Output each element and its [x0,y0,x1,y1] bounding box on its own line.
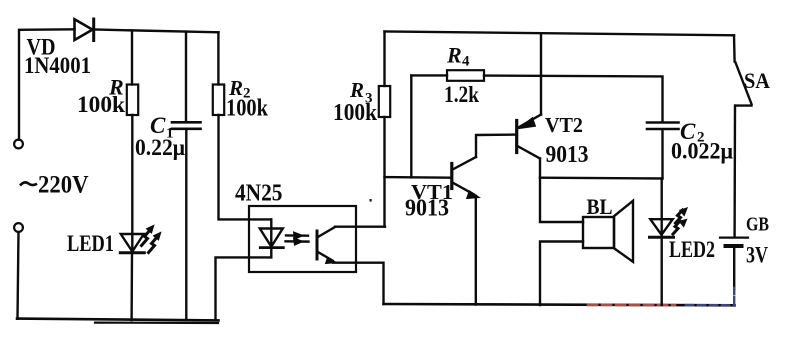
wire VT2 emitter down to node [539,159,541,178]
resistor R3 [379,86,390,117]
terminal lower [14,223,23,232]
wire opto emitter to ground corner [333,263,384,304]
LED1 [120,234,144,253]
wire bottom rail navy dashed watermark segment [686,304,735,307]
wire battery to bottom rail navy dashes [733,248,735,290]
wire bottom rail red dashed watermark segment [588,304,675,307]
terminal upper [14,140,23,149]
opto cathode pin wire to left bottom rail [216,257,272,320]
wire R3 top [383,32,385,86]
wire R3 bottom down to opto collector node [383,117,385,227]
svg-text:LED2: LED2 [669,237,715,262]
speaker BL [583,201,633,262]
svg-text:4N25: 4N25 [235,180,283,206]
diode VD [75,19,94,41]
svg-text:BL: BL [587,194,613,219]
wire lower terminal down to left bottom rail [18,232,19,319]
wire BL bottom pin to ground [540,242,583,306]
wire top right rail [385,31,735,35]
capacitor C2 [647,123,679,130]
battery GB [720,238,748,246]
svg-text:1.2k: 1.2k [444,82,479,107]
svg-text:1N4001: 1N4001 [24,53,91,78]
ink speck [370,199,372,202]
wire top-left from terminal rail to diode anode [19,29,75,139]
svg-text:3V: 3V [746,243,768,268]
svg-text:100k: 100k [77,92,125,117]
svg-text:4: 4 [462,54,470,70]
transistor VT2 [517,115,541,159]
svg-text:9013: 9013 [546,141,589,168]
svg-text:LED1: LED1 [67,231,114,256]
wire R4 left vertical to base node [410,75,412,177]
opto internal LED [260,219,284,257]
wire VT2 collector up to top rail [540,33,542,114]
wire emitter node to C2 bottom [540,176,663,179]
LED1 light arrows [142,225,161,252]
wire C1 branch top [185,32,187,122]
wire SA bottom to battery [733,106,736,237]
wire R branch top [131,31,133,85]
LED2 light arrows [673,208,687,234]
svg-text:220V: 220V [38,172,89,199]
resistor R2 [213,85,224,116]
capacitor C1 [172,122,201,129]
wire R bottom to LED1 [131,115,133,253]
wire left bottom rail [17,319,219,321]
resistor R4 [447,70,484,81]
wire LED1 bottom to rail [130,253,133,320]
wire opto collector to R3 node [335,225,385,227]
wire LED2 bottom to rail [661,238,663,305]
wire VT1 collector up and to VT2 base [476,135,516,157]
wire C1 bottom to rail [185,130,187,321]
svg-text:R: R [349,78,364,102]
svg-text:0.22μ: 0.22μ [135,135,185,160]
transistor VT1 [452,157,480,199]
wire VT1 emitter down to rail [475,196,477,305]
wire node to VT1 base [385,176,451,179]
opto phototransistor [317,227,337,264]
wire diode cathode to R2 branch corner [94,30,219,33]
svg-text:100k: 100k [333,100,378,126]
resistor R [127,85,138,116]
svg-text:SA: SA [744,68,771,93]
wire BL top pin [540,178,583,222]
opto coupling arrows [286,232,309,245]
svg-text:0.022μ: 0.022μ [671,139,733,164]
wire R4 right to C2 top [484,76,663,122]
wire R2 bottom down to opto anode pin [219,115,272,219]
wire LED2 top from emitter node [661,178,663,237]
wire bottom right rail [384,304,735,305]
wire R4 left horizontal [411,74,447,76]
label ~220V tilde [20,182,37,185]
svg-text:VT2: VT2 [545,113,583,137]
wire C2 bottom vertical [661,130,663,179]
svg-text:GB: GB [746,214,769,236]
switch SA [734,35,752,105]
optocoupler U1 4N25 box [249,206,356,272]
svg-text:9013: 9013 [405,195,449,222]
wire R2 branch top [217,32,219,84]
LED2 [650,219,674,237]
svg-text:R: R [446,43,462,68]
wire left bottom rail second stroke [95,322,218,325]
svg-text:100k: 100k [226,96,269,122]
